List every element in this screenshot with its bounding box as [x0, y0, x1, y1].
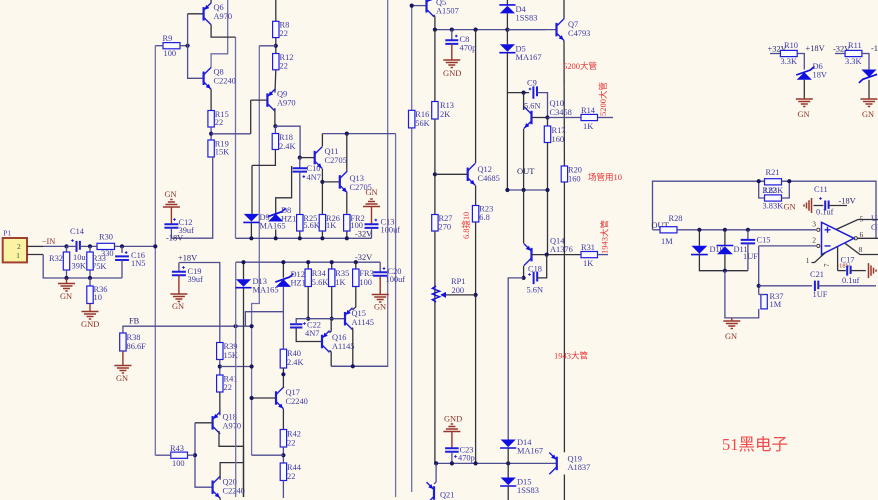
transistor Q6 — [203, 7, 205, 20]
wire Q20 collector up to drop wire — [220, 463, 243, 480]
transistor Q19 pnp mirrored — [556, 457, 558, 471]
svg-text:C14: C14 — [70, 227, 85, 236]
svg-text:R44: R44 — [287, 463, 302, 472]
transistor Q7 — [555, 23, 557, 36]
svg-text:A1145: A1145 — [352, 318, 375, 327]
svg-text:2.4K: 2.4K — [287, 358, 304, 367]
svg-text:2: 2 — [17, 243, 21, 251]
resistor R8 — [275, 0, 277, 21]
svg-text:C9: C9 — [527, 79, 537, 88]
wire Q19 emitter up / collector down — [563, 448, 565, 452]
wire +18V L to R39 bus — [179, 263, 220, 343]
svg-text:R42: R42 — [287, 430, 301, 439]
diode D5 — [500, 44, 515, 52]
svg-text:5200大管: 5200大管 — [598, 82, 608, 116]
wire R12 to Q9 emitter — [274, 70, 277, 93]
svg-text:2.4K: 2.4K — [279, 142, 296, 151]
wire Q12 emitter down to R23 — [475, 185, 477, 205]
wire R27 bottom down — [434, 231, 436, 463]
-32V rail y=262.2 — [236, 261, 381, 263]
svg-text:R10: R10 — [784, 41, 798, 50]
transistor Q13 — [322, 181, 339, 183]
svg-text:100: 100 — [164, 49, 177, 58]
wire C18 right up to base — [537, 255, 547, 278]
svg-text:1M: 1M — [770, 300, 782, 309]
resistor R30 — [97, 243, 115, 249]
wire Q5 collector down to rail — [433, 15, 436, 30]
wire pin2 to C14 — [43, 245, 67, 247]
resistor R17 — [547, 118, 549, 127]
wire R18 bottom jog to D9 — [252, 150, 275, 166]
capacitor C15 — [747, 230, 749, 240]
wire Q13 collector up to rail — [346, 134, 348, 171]
wire R9 right to Q6/Q8 base rail — [180, 45, 188, 47]
wire vertical bus x=235.6 down to lower rail — [235, 37, 237, 238]
svg-text:3.3K: 3.3K — [845, 57, 862, 66]
wire R39-R41 junction — [219, 360, 221, 376]
lower rail y=238.3 — [236, 237, 372, 239]
zener D8 with top jog — [276, 166, 292, 214]
svg-text:C21: C21 — [810, 270, 824, 279]
svg-text:100: 100 — [359, 278, 372, 287]
resistor R12 — [273, 54, 279, 70]
svg-text:GND: GND — [443, 68, 461, 78]
svg-text:-32V: -32V — [355, 253, 372, 262]
ground GN below D7 — [861, 99, 878, 107]
svg-text:R32: R32 — [49, 254, 63, 263]
resistor R14 — [548, 117, 582, 119]
svg-text:C2240: C2240 — [286, 397, 308, 406]
svg-text:1SS83: 1SS83 — [516, 14, 538, 23]
wire R19 bottom to C12 leg — [171, 157, 212, 238]
svg-text:1UF: 1UF — [743, 252, 758, 261]
svg-text:86.6F: 86.6F — [127, 342, 147, 351]
svg-text:A1145: A1145 — [332, 342, 355, 351]
svg-text:1K: 1K — [583, 259, 593, 268]
svg-text:Q12: Q12 — [478, 165, 492, 174]
svg-text:C15: C15 — [757, 236, 771, 245]
wire Q11 collector rail to bus — [322, 133, 395, 135]
capacitor C10 — [299, 158, 301, 168]
wire C22 top to bias node — [296, 319, 345, 325]
wire D7 to ground — [868, 80, 870, 99]
svg-text:A1837: A1837 — [568, 463, 591, 472]
svg-text:200: 200 — [452, 286, 465, 295]
svg-text:Q8: Q8 — [214, 68, 224, 77]
transistor Q11 — [300, 157, 315, 159]
svg-text:6: 6 — [860, 230, 864, 239]
svg-text:OUT: OUT — [517, 166, 535, 176]
svg-text:1: 1 — [16, 252, 20, 260]
resistor R35 — [331, 262, 333, 269]
svg-text:场管用10: 场管用10 — [588, 172, 622, 182]
wire Q14 base right to R31 — [532, 254, 582, 256]
wire Q6 emitter to top edge — [210, 0, 212, 3]
svg-text:GN: GN — [366, 188, 378, 197]
svg-text:1SS83: 1SS83 — [517, 486, 539, 495]
svg-text:2K: 2K — [440, 110, 450, 119]
wire junction to FB drop line — [220, 366, 252, 368]
wire bus x=411.7 below R16 to bottom — [411, 128, 413, 492]
wire Q20 emitter down — [219, 498, 221, 500]
svg-text:0.1uf: 0.1uf — [816, 208, 834, 217]
wire Q9 collector down to R18 junction — [274, 108, 276, 126]
svg-text:-18V: -18V — [839, 197, 856, 206]
svg-text:R43: R43 — [170, 444, 184, 453]
svg-text:4N7: 4N7 — [307, 173, 321, 182]
resistor R13 — [434, 30, 436, 102]
svg-text:A1376: A1376 — [550, 245, 573, 254]
wire Q10 base right to R14 — [532, 117, 548, 119]
wire Q18 collector down — [219, 431, 244, 497]
svg-text:C18: C18 — [528, 265, 542, 274]
wire junction left to bus x=259.3 — [259, 45, 276, 47]
zener D7 — [861, 70, 876, 78]
svg-text:R17: R17 — [552, 126, 566, 135]
svg-text:Q18: Q18 — [223, 413, 237, 422]
wire C9 right to R14 node — [537, 93, 548, 119]
wire OUT node horizontal — [507, 189, 547, 191]
connector P1 — [3, 238, 27, 262]
wire D6 to ground — [803, 80, 805, 99]
svg-text:10: 10 — [94, 293, 102, 302]
diode D11 — [724, 230, 726, 246]
transistor Q18 — [212, 416, 214, 430]
svg-text:6.8: 6.8 — [479, 213, 489, 222]
wire Q17 emitter down to R42 — [282, 409, 284, 430]
transistor Q17 — [275, 391, 277, 405]
wire Q9 base left down to R15 R19 junction — [251, 99, 268, 101]
svg-text:R21: R21 — [766, 168, 780, 177]
diode D10 — [698, 230, 700, 246]
svg-text:R35: R35 — [335, 269, 349, 278]
svg-text:1943大管: 1943大管 — [554, 351, 588, 361]
svg-text:Q21: Q21 — [440, 491, 454, 500]
ground GND below R36 — [89, 304, 91, 312]
wire D14 to rail — [507, 448, 509, 463]
wire R10 right to zener D6 — [797, 54, 804, 70]
resistor R10 — [770, 53, 780, 55]
svg-text:470p: 470p — [460, 44, 477, 53]
svg-text:270: 270 — [439, 223, 452, 232]
capacitor C22 — [290, 324, 302, 327]
resistor R38 — [120, 333, 126, 351]
svg-text:R34: R34 — [312, 269, 327, 278]
transistor Q10 mirrored — [530, 111, 532, 125]
wire junction left to FB drop — [252, 454, 284, 456]
svg-text:FR3: FR3 — [359, 269, 373, 278]
resistor R42 — [280, 430, 286, 448]
svg-text:C4685: C4685 — [478, 174, 500, 183]
svg-text:MA167: MA167 — [517, 447, 543, 456]
wire Q12 base wire — [435, 173, 468, 175]
wire Q11 collector up — [321, 134, 323, 147]
resistor R31 — [581, 252, 598, 258]
svg-text:75K: 75K — [92, 262, 106, 271]
svg-text:C4793: C4793 — [568, 29, 590, 38]
capacitor C8 electrolytic — [451, 30, 453, 41]
svg-text:1N5: 1N5 — [131, 259, 145, 268]
wire Q15 emitter up to FR3 — [353, 287, 356, 310]
svg-text:22: 22 — [215, 118, 223, 127]
svg-text:C2705: C2705 — [325, 156, 347, 165]
svg-text:C2240: C2240 — [214, 77, 236, 86]
wire Q8 emitter down to R15 — [210, 89, 212, 110]
resistor R16 — [409, 110, 415, 128]
ground GN servo — [731, 318, 733, 321]
diode D15 — [507, 463, 509, 477]
wire vertical bus x=395.6 from Q11 rail down to bottom — [395, 134, 397, 497]
svg-text:R18: R18 — [279, 133, 293, 142]
svg-text:51黑电子: 51黑电子 — [722, 435, 788, 454]
svg-text:+18V: +18V — [178, 254, 197, 263]
svg-text:Q16: Q16 — [332, 333, 346, 342]
wire Q10 collector up — [523, 106, 525, 110]
wire Q10 emitter down to OUT node — [523, 129, 525, 190]
capacitor C14 — [77, 241, 80, 252]
ground GN below R32 — [66, 278, 68, 283]
svg-text:3: 3 — [812, 220, 816, 229]
op-amp U1 triangle — [822, 222, 855, 254]
wire P1 pin2 stub — [27, 245, 43, 247]
wire R41 to Q18 emitter — [219, 392, 221, 415]
wire R14 right end — [598, 117, 614, 119]
svg-text:GN: GN — [116, 374, 128, 383]
wire Q13 emitter down to FR2 — [346, 193, 348, 214]
svg-text:R11: R11 — [848, 41, 862, 50]
svg-text:R40: R40 — [287, 349, 301, 358]
wire R30 right to input node — [115, 245, 156, 247]
wire rail to Q7 base — [507, 29, 556, 31]
wire R35 bottom to Q15 base node — [331, 287, 333, 319]
wire D15 bottom down — [507, 486, 509, 500]
svg-text:P1: P1 — [3, 229, 11, 238]
wire R9 left down — [155, 45, 163, 47]
wire Q11 emitter down to Q13 base node — [321, 169, 323, 214]
ground GN below C19 — [178, 275, 180, 293]
svg-text:GN: GN — [172, 302, 184, 311]
diode D14 — [501, 440, 516, 448]
resistor R28 — [660, 227, 677, 233]
svg-text:Q13: Q13 — [350, 174, 364, 183]
svg-text:U1: U1 — [871, 214, 878, 223]
resistor R15 — [208, 111, 214, 128]
resistor R39 — [217, 343, 223, 360]
svg-text:5200大管: 5200大管 — [563, 61, 597, 71]
wire Q12 collector up to rail — [475, 30, 477, 164]
svg-text:100uf: 100uf — [381, 226, 401, 235]
wire R13 down to Q12 base node — [434, 119, 436, 215]
wire R44 bottom down — [282, 481, 284, 499]
svg-text:22: 22 — [224, 383, 232, 392]
wire R11 right to zener D7 — [862, 54, 869, 70]
svg-text:Q7: Q7 — [568, 20, 578, 29]
wire vertical x=155.3 input node down to R43 — [154, 46, 156, 456]
resistor FR3 — [355, 262, 357, 269]
transistor Q8 — [203, 72, 205, 86]
wire junction right toward Q9 base line — [211, 133, 251, 135]
wire vertical bus x=387.7 from top to collector rail y=366.3 — [331, 0, 388, 366]
node junction C14 left — [64, 244, 68, 248]
wire Q7 collector to top edge — [563, 0, 565, 19]
svg-text:0.1uf: 0.1uf — [842, 276, 860, 285]
resistor R40 — [280, 349, 286, 368]
wire Q18 base from FB node — [195, 422, 213, 424]
svg-text:R9: R9 — [163, 34, 173, 43]
svg-text:GND: GND — [444, 415, 462, 424]
wire R40 bottom to Q17 collector — [282, 368, 284, 388]
resistor R22 parallel — [765, 195, 782, 201]
resistor R23 — [472, 206, 478, 223]
svg-text:Q17: Q17 — [286, 388, 300, 397]
svg-text:5.6N: 5.6N — [527, 286, 544, 295]
wire -32V rail left end down bus — [235, 262, 237, 497]
svg-text:C3458: C3458 — [550, 108, 572, 117]
wire R42 to R44 junction — [282, 447, 284, 463]
svg-text:22: 22 — [280, 29, 288, 38]
bottom rail y=463.4 — [436, 462, 557, 464]
svg-text:R31: R31 — [581, 243, 595, 252]
top rail y=29.6 — [435, 29, 545, 31]
capacitor C23 — [445, 448, 459, 452]
wire R28 to op-amp pin 3 — [677, 229, 816, 231]
wire R20 bottom down to Q19 — [563, 182, 565, 448]
svg-text:3.83K: 3.83K — [763, 186, 784, 195]
svg-text:GN: GN — [798, 110, 810, 119]
svg-text:5.6K: 5.6K — [312, 278, 329, 287]
wire R34 bottom to bias node — [307, 287, 309, 319]
resistor R44 — [280, 463, 286, 481]
resistor R41 — [217, 375, 223, 392]
svg-text:A970: A970 — [223, 422, 242, 431]
resistor R37 — [761, 295, 767, 309]
capacitor C20 electrolytic — [379, 262, 381, 272]
svg-text:Q15: Q15 — [352, 309, 366, 318]
svg-text:6.8搇10: 6.8搇10 — [461, 212, 471, 239]
resistor R33 — [89, 246, 91, 252]
wire C14 to R30 — [67, 245, 77, 247]
wire OUT to R28 — [653, 229, 661, 231]
capacitor C18 — [534, 272, 538, 284]
transistor Q5 pnp — [425, 0, 427, 13]
transistor Q15 — [344, 312, 346, 326]
wire Q6 collector right to bus — [211, 25, 235, 37]
svg-text:1K: 1K — [326, 221, 336, 230]
transistor Q16 pnp mirrored — [321, 335, 323, 349]
wire Q17 base to FB drop — [252, 397, 276, 399]
svg-text:56K: 56K — [415, 119, 429, 128]
svg-text:3.3K: 3.3K — [781, 57, 798, 66]
ground GN below D6 — [796, 99, 813, 107]
svg-text:160: 160 — [552, 135, 565, 144]
wire C18 left to down leg — [508, 278, 523, 440]
svg-text:GN: GN — [60, 292, 72, 301]
svg-text:GND: GND — [81, 319, 99, 329]
svg-text:-18V: -18V — [166, 234, 183, 243]
wire R23 bottom to RP1 node — [475, 222, 477, 463]
svg-text:18V: 18V — [813, 71, 827, 80]
wire R8-R12 junction — [275, 38, 277, 54]
svg-text:RP1: RP1 — [451, 277, 465, 286]
svg-text:FB: FB — [129, 317, 140, 326]
svg-text:5.6K: 5.6K — [303, 221, 320, 230]
svg-text:4N7: 4N7 — [305, 329, 319, 338]
svg-text:−IN: −IN — [42, 237, 56, 246]
svg-text:22: 22 — [287, 472, 295, 481]
zener D12 — [282, 262, 284, 278]
svg-text:R16: R16 — [415, 110, 429, 119]
wire Q17 collector up — [282, 387, 284, 388]
wire R37 top to pin2 net — [759, 294, 764, 296]
svg-text:-18V: -18V — [871, 44, 878, 53]
svg-text:7: 7 — [823, 263, 831, 267]
pin 7 stub down to C17 — [837, 247, 839, 271]
wire Q7 emitter down long bus to Q19 — [563, 41, 565, 167]
transistor Q14 pnp mirrored — [530, 248, 532, 262]
svg-text:1K: 1K — [583, 122, 593, 131]
wire diode bottoms — [699, 254, 748, 271]
wire op-amp pin 2 — [759, 245, 816, 247]
wire D13 bottom down — [243, 288, 245, 497]
svg-text:100uf: 100uf — [386, 275, 406, 284]
svg-text:C2240: C2240 — [223, 487, 245, 496]
wire C9 left corner down to OUT — [506, 93, 508, 190]
resistor R19 — [208, 140, 214, 157]
transistor Q9 — [266, 93, 268, 107]
zener D6 — [797, 72, 812, 80]
svg-text:GN: GN — [725, 332, 737, 341]
svg-text:8: 8 — [859, 245, 863, 254]
svg-text:470p: 470p — [458, 454, 475, 463]
resistor R18 — [274, 126, 276, 133]
svg-text:MA165: MA165 — [260, 222, 286, 231]
ground GN below C20 — [379, 276, 381, 294]
wire vertical bus x=411.7 (Q5 base / R16 net) — [411, 6, 413, 111]
resistor R11 — [835, 53, 845, 55]
svg-text:1943大管: 1943大管 — [600, 220, 610, 254]
resistor R26 — [321, 214, 323, 239]
svg-text:R28: R28 — [669, 214, 683, 223]
resistor R20 on emitter bus — [561, 166, 567, 182]
resistor R32 — [66, 246, 68, 252]
wire R16 bus top to Q5 base — [412, 5, 427, 7]
svg-text:160: 160 — [568, 175, 581, 184]
wire D12 bottom staircase to FB and R40 — [245, 287, 283, 326]
svg-text:Q6: Q6 — [214, 3, 224, 12]
wire R43 left to input bus / right to node — [155, 454, 171, 456]
transistor Q12 — [467, 168, 469, 182]
svg-text:3.83K: 3.83K — [763, 202, 784, 211]
resistor R21 — [765, 179, 782, 185]
capacitor C16 — [121, 246, 123, 253]
svg-text:1: 1 — [806, 256, 810, 265]
svg-text:Q11: Q11 — [325, 147, 339, 156]
ground GN below R38 — [122, 351, 124, 365]
svg-text:22: 22 — [280, 62, 288, 71]
capacitor C9 — [533, 86, 537, 98]
diode D13 — [243, 262, 245, 279]
svg-text:Q9: Q9 — [277, 90, 287, 99]
capacitor C19 electrolytic — [178, 263, 180, 272]
ground GND below C8 — [451, 44, 453, 60]
svg-text:22: 22 — [287, 439, 295, 448]
wire Q16 emitter up / collector down — [330, 319, 332, 333]
wire RP1 wiper to R23 line — [446, 294, 476, 296]
svg-text:R38: R38 — [127, 333, 141, 342]
wire Q14 collector down to C18 node — [523, 266, 525, 278]
transistor Q21 partial at bottom — [433, 486, 435, 500]
wire C22 bottom to Q16 base — [296, 328, 322, 342]
